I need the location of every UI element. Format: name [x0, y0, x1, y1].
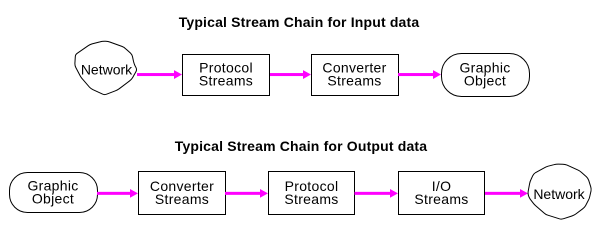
box Protocol Streams (bottom) — [269, 172, 355, 215]
box Converter Streams (bottom) — [139, 172, 226, 215]
stadium Graphic Object (bottom left) — [10, 173, 98, 213]
arrow 3 (converter -> graphic object) — [398, 70, 441, 79]
svg-text:Streams: Streams — [284, 191, 338, 207]
arrow 6 (protocol -> i/o) — [355, 189, 399, 198]
svg-text:Network: Network — [533, 186, 585, 202]
svg-text:Object: Object — [32, 191, 74, 207]
box I/O Streams (bottom) — [399, 172, 485, 215]
arrow 2 (protocol -> converter) — [270, 70, 311, 79]
arrow 7 (i/o -> network) — [485, 189, 528, 198]
arrow 1 (network -> protocol streams) — [137, 70, 182, 79]
svg-text:Typical Stream Chain for Outpu: Typical Stream Chain for Output data — [175, 138, 427, 154]
svg-text:Object: Object — [464, 73, 506, 89]
network blob (bottom right) — [528, 164, 591, 219]
svg-text:Streams: Streams — [327, 73, 381, 89]
svg-text:Streams: Streams — [199, 73, 253, 89]
svg-text:Network: Network — [81, 61, 133, 77]
box Protocol Streams (top) — [183, 55, 270, 96]
box Converter Streams (top) — [312, 55, 399, 96]
network blob (top left) — [75, 41, 137, 94]
svg-text:Typical Stream Chain for Input: Typical Stream Chain for Input data — [179, 14, 420, 30]
arrow 5 (converter -> protocol) — [225, 189, 268, 198]
svg-text:Streams: Streams — [414, 191, 468, 207]
arrow 4 (graphic object -> converter) — [97, 189, 138, 198]
svg-text:Streams: Streams — [155, 191, 209, 207]
stadium Graphic Object (top right) — [442, 54, 530, 97]
